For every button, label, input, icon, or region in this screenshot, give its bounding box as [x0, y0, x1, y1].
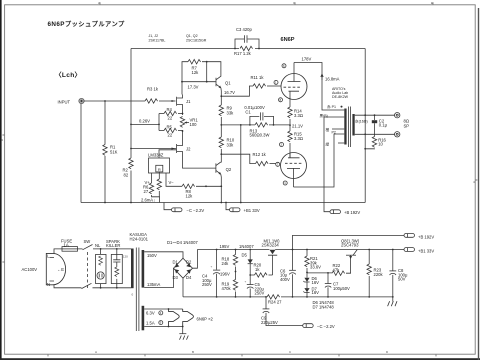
heater filament 2 of 6N6P: [183, 309, 194, 327]
svg-text:100μ50V: 100μ50V: [333, 286, 350, 291]
svg-text:D1〜D4 1N4007: D1〜D4 1N4007: [167, 240, 198, 245]
diode D1: [175, 263, 179, 267]
svg-text:27: 27: [144, 189, 149, 194]
wire to Q1 base: [182, 81, 216, 83]
wire R7 to Q1 collector: [202, 62, 221, 77]
HV wires to bridge: [144, 252, 183, 288]
PT core: [136, 248, 139, 332]
svg-text:KILLER: KILLER: [106, 243, 120, 248]
wire J2 drain to Q2 base: [183, 155, 216, 168]
NFB column wire: [130, 49, 132, 203]
wire R4/R5 left link: [158, 114, 160, 131]
speaker terminal -: [395, 132, 400, 137]
wire takeoff to R12: [221, 154, 255, 163]
nodes on source rail: [182, 113, 184, 115]
svg-text:C1: C1: [245, 110, 251, 115]
tag +B1 33V: [404, 248, 415, 252]
tag +B 192V mid: [330, 210, 341, 214]
node R1 bottom: [104, 202, 106, 204]
svg-text:250V: 250V: [202, 282, 212, 287]
node R7 right: [206, 61, 208, 63]
svg-text:2SK3234: 2SK3234: [262, 243, 280, 248]
tube V2 lower triode 6N6P: [281, 153, 307, 179]
svg-text:D7 1N4748: D7 1N4748: [313, 304, 335, 309]
AC plug: [46, 253, 65, 284]
svg-text:R3 1k: R3 1k: [147, 87, 159, 92]
svg-text:12k: 12k: [186, 193, 194, 198]
node lower grid takeoff: [220, 153, 222, 155]
svg-text:R11 1k: R11 1k: [251, 75, 265, 80]
svg-text:D2: D2: [186, 260, 192, 265]
svg-text:2SC1815GR: 2SC1815GR: [186, 38, 207, 42]
svg-text:10: 10: [378, 142, 383, 147]
cathode node wire 21.1V: [221, 124, 290, 126]
wire 0.26V to NFB column: [131, 123, 159, 125]
PT heater secondary: [142, 306, 145, 331]
OPT secondary bottom wire: [355, 133, 395, 135]
capacitor C7 100u 50V: [327, 273, 329, 283]
svg-text:0.26V: 0.26V: [139, 119, 150, 124]
frame tick marks bottom: [48, 354, 436, 356]
svg-text:1.5A: 1.5A: [146, 320, 155, 325]
frame tick left/right: [2, 135, 477, 262]
svg-text:16.8mA: 16.8mA: [325, 77, 340, 82]
ground rail of amp: [81, 202, 365, 204]
wire LM334 top to J2 source: [159, 150, 176, 158]
wire Q2 emitter to rail: [220, 174, 223, 202]
svg-text:V−: V−: [169, 180, 175, 185]
svg-text:D3: D3: [173, 275, 179, 280]
zener D7 16V: [304, 288, 309, 292]
resistor R1 51K: [103, 145, 107, 156]
resistor R19 470k: [233, 280, 237, 291]
wire R13 bias column to rail: [240, 125, 242, 203]
svg-text:195V: 195V: [220, 244, 230, 249]
svg-text:16V: 16V: [312, 290, 320, 295]
wire Q1 emitter down: [220, 88, 222, 105]
svg-text:−C −2.2V: −C −2.2V: [317, 324, 335, 329]
svg-text:緑: 緑: [326, 142, 330, 147]
svg-text:Q2: Q2: [226, 167, 232, 172]
node heater 1 top: [168, 308, 170, 310]
resistor R12 1k: [256, 161, 269, 165]
svg-text:33k: 33k: [227, 142, 235, 147]
svg-text:250V: 250V: [255, 291, 265, 296]
JFET J2: [176, 144, 178, 153]
page edge shading left: [0, 0, 2, 360]
svg-text:16V: 16V: [312, 280, 320, 285]
bridge rectifier diamond: [174, 258, 193, 278]
svg-text:赤 P1: 赤 P1: [327, 104, 336, 109]
OPT orange stub: [332, 128, 344, 130]
svg-text:P2: P2: [332, 130, 336, 134]
svg-text:AC100V: AC100V: [22, 267, 38, 272]
svg-text:2SC4793: 2SC4793: [341, 243, 359, 248]
current label 16.8mA: [321, 74, 323, 80]
tag -C -2.2V psu: [303, 324, 314, 328]
pin 1 upper tube: [274, 80, 278, 84]
resistor R8 12k: [182, 184, 195, 188]
svg-text:R17 1.2k: R17 1.2k: [234, 51, 252, 56]
psu ground rail: [183, 296, 393, 298]
wire input sleeve down: [80, 104, 82, 203]
tube V1 upper triode 6N6P: [281, 74, 307, 100]
svg-text:+B1 33V: +B1 33V: [418, 248, 434, 253]
tag -C -2.2V: [164, 203, 172, 210]
svg-text:196V: 196V: [220, 271, 230, 276]
ground symbol psu: [392, 297, 394, 302]
svg-text:+B 192V: +B 192V: [418, 234, 434, 239]
svg-text:150V: 150V: [147, 253, 157, 258]
wire plug L to fuse: [54, 249, 62, 253]
node cathode line: [220, 124, 222, 126]
capacitor C6 10u 400V: [292, 249, 294, 251]
resistor R11 1k: [253, 84, 266, 88]
svg-text:12k: 12k: [192, 70, 200, 75]
NFB/ground column from output: [364, 49, 366, 203]
node J1 drain / Q1 base wire: [181, 81, 183, 83]
NFB top rail: [131, 48, 365, 50]
svg-text:B: B: [192, 350, 194, 354]
svg-text:21.1V: 21.1V: [292, 123, 303, 128]
B+ rail: [197, 249, 404, 251]
PT HV secondary: [142, 250, 145, 288]
svg-text:16.7V: 16.7V: [224, 90, 235, 95]
heater filament 1 of 6N6P: [169, 309, 180, 327]
resistor R9 33k: [219, 105, 223, 116]
svg-text:R4: R4: [167, 107, 173, 112]
wire plug N to switch: [54, 285, 82, 288]
svg-text:A: A: [98, 1, 100, 5]
frame tick marks top: [100, 2, 433, 5]
switch SW upper pole: [78, 248, 132, 250]
svg-text:H24-0101: H24-0101: [130, 236, 149, 241]
resistor R18 24k: [235, 250, 237, 255]
svg-text:SW: SW: [84, 239, 91, 244]
svg-text:LM334Z: LM334Z: [148, 153, 164, 158]
fuse FUSE 1A: [62, 247, 78, 252]
svg-text:J2: J2: [186, 146, 191, 151]
wire R3 to J1 gate: [159, 100, 176, 102]
tag +B 192V psu: [404, 234, 415, 238]
zobel resistor R16 10: [372, 137, 376, 148]
wire R9 to R10: [220, 117, 222, 137]
svg-text:33.6V: 33.6V: [310, 265, 321, 270]
capacitor C1 0.01u 100V: [250, 112, 274, 125]
LM334 R set lead: [158, 172, 160, 179]
wire J2 gate to NFB node: [131, 148, 176, 150]
svg-text:R: R: [158, 167, 161, 172]
source rail J1-VR1-J2: [182, 108, 184, 142]
svg-text:470k: 470k: [222, 286, 232, 291]
pin 6: [282, 64, 286, 68]
svg-text:135mA: 135mA: [147, 282, 160, 287]
node grid takeoff: [220, 95, 222, 97]
input terminal J: [79, 98, 84, 103]
diode D4: [186, 269, 191, 273]
plate wire to OPT P1: [294, 63, 344, 111]
wire R7 node to Q1 base wire: [206, 62, 208, 82]
svg-text:82: 82: [124, 172, 129, 177]
svg-text:A: A: [95, 350, 97, 354]
svg-text:17.3V: 17.3V: [188, 84, 199, 89]
switch SW lower pole: [82, 283, 132, 288]
wire takeoff to R11: [221, 86, 253, 96]
speaker terminal +: [395, 113, 400, 118]
svg-text:6N6P ×2: 6N6P ×2: [197, 317, 214, 322]
resistor R15 3.3ohm: [288, 131, 292, 142]
transistor Q2: [215, 163, 217, 172]
zobel capacitor C2 0.1u: [374, 115, 376, 120]
svg-text:R24 27: R24 27: [268, 300, 282, 305]
resistor R3 1k: [145, 99, 158, 103]
LM334 V- lead to R8: [166, 173, 182, 186]
page edge shading bottom: [0, 358, 480, 360]
heater center ground: [182, 327, 184, 334]
svg-text:E: E: [431, 1, 433, 5]
node heater 2 bottom: [182, 326, 184, 328]
svg-text:+B 192V: +B 192V: [344, 210, 360, 215]
node 0.26V: [158, 124, 160, 126]
wire R1 column: [104, 101, 106, 203]
resistor R10 33k: [219, 137, 223, 148]
potentiometer VR1 100: [180, 117, 184, 128]
OPT secondary top wire: [355, 114, 395, 116]
svg-text:C3 420p: C3 420p: [236, 27, 253, 32]
resistor R20 1k gate: [255, 273, 268, 277]
svg-text:24k: 24k: [222, 261, 230, 266]
svg-text:120: 120: [123, 255, 128, 259]
wire J1 drain up: [182, 62, 188, 95]
svg-text:1N4007: 1N4007: [239, 244, 254, 249]
svg-text:D5: D5: [242, 253, 248, 258]
wire lower plate to OPT P2: [294, 134, 345, 187]
wire input to R3: [84, 100, 145, 102]
capacitor C3 42p: [235, 35, 259, 48]
OPT green stub: [338, 142, 344, 144]
svg-text:6.3V: 6.3V: [146, 311, 155, 316]
LM334 V+ lead and R6: [151, 173, 153, 183]
node input/R1: [104, 100, 106, 102]
resistor R13 560ohm: [255, 123, 268, 127]
svg-text:47k: 47k: [333, 267, 341, 272]
diode D5 1N4007: [249, 250, 251, 260]
zener D6 16V: [306, 272, 308, 274]
svg-text:DE-8K2W: DE-8K2W: [332, 95, 349, 99]
svg-text:220k: 220k: [374, 272, 384, 277]
svg-text:2.6mA↓: 2.6mA↓: [141, 197, 155, 202]
node R8 line: [220, 185, 222, 187]
resistor R22 47k: [332, 271, 345, 275]
svg-text:400V: 400V: [280, 277, 290, 282]
svg-text:+: +: [245, 280, 247, 284]
pin 2: [280, 143, 284, 147]
svg-text:−C −2.2V: −C −2.2V: [187, 208, 205, 213]
switch link dashed: [87, 252, 89, 288]
svg-text:51K: 51K: [110, 149, 118, 154]
resistor R21 39k: [306, 249, 308, 251]
svg-text:SP: SP: [404, 123, 410, 128]
svg-text:Q1: Q1: [225, 81, 231, 86]
svg-text:3.3Ω: 3.3Ω: [294, 136, 303, 141]
resistor R5 22: [159, 130, 164, 132]
svg-text:2SK117BL: 2SK117BL: [149, 38, 166, 42]
svg-text:R12 1k: R12 1k: [253, 152, 267, 157]
svg-text:D1: D1: [173, 260, 179, 265]
tag +B1 20V: [226, 203, 230, 210]
resistor R14 3.3ohm: [289, 93, 291, 107]
node heater 1 bottom: [168, 326, 170, 328]
bridge - to ground rail: [182, 278, 184, 297]
capacitor C5 220u 250V: [247, 284, 254, 286]
wire R10 to Q2 collector: [220, 149, 222, 163]
svg-text:560Ω0.3W: 560Ω0.3W: [250, 133, 270, 138]
svg-text:+B1 33V: +B1 33V: [244, 208, 260, 213]
resistor R2 82: [129, 158, 133, 169]
resistor R23 220k: [368, 249, 370, 251]
svg-text:1A: 1A: [64, 242, 69, 247]
svg-text:橙: 橙: [326, 127, 330, 132]
capacitor C9 220u 25V: [265, 296, 267, 298]
svg-text:灰(16Ω): 灰(16Ω): [355, 119, 368, 124]
svg-text:INPUT: INPUT: [58, 99, 71, 104]
OPT B wire to +B tag: [324, 117, 344, 212]
svg-text:3.3Ω: 3.3Ω: [294, 113, 303, 118]
pin 7: [276, 162, 280, 166]
page edge shading right: [478, 8, 479, 360]
svg-text:33k: 33k: [227, 110, 235, 115]
svg-text:D4: D4: [186, 275, 192, 280]
bridge + output wire: [193, 250, 198, 269]
svg-text:R5: R5: [167, 124, 173, 129]
svg-text:+: +: [211, 265, 213, 269]
pin 1 lower: [283, 181, 287, 185]
svg-text:22: 22: [168, 132, 173, 137]
wire R11 to grid pin: [267, 85, 281, 87]
svg-text:J1: J1: [186, 99, 191, 104]
svg-text:←E: ←E: [57, 267, 64, 272]
node Q2 emitter rail: [220, 202, 222, 204]
capacitor C4 100u 250V: [216, 250, 218, 297]
resistor R7 12k: [188, 60, 201, 64]
JFET J1: [176, 97, 178, 106]
svg-text:178V: 178V: [302, 57, 312, 62]
capacitor C8 100u 50V: [392, 249, 394, 251]
transistor Q1: [215, 78, 217, 86]
resistor R24 27 in rail: [267, 295, 280, 299]
resistor R17 1.2k on NFB rail: [240, 46, 253, 50]
svg-text:N: N: [47, 282, 50, 287]
svg-text:22: 22: [168, 115, 173, 120]
svg-text:50V: 50V: [398, 277, 406, 282]
PT primary winding: [131, 249, 134, 289]
svg-text:NL: NL: [95, 243, 101, 248]
svg-text:6N6P: 6N6P: [281, 37, 295, 43]
svg-text:100: 100: [190, 122, 198, 127]
heater winding wires: [144, 309, 183, 327]
svg-text:220μ25V: 220μ25V: [261, 320, 278, 325]
resistor R4 22: [159, 113, 164, 115]
diode D3: [175, 269, 179, 273]
svg-text:0.1μ: 0.1μ: [379, 123, 388, 128]
svg-text:〈Lch〉: 〈Lch〉: [55, 71, 81, 79]
+B 192V output line: [293, 235, 405, 249]
svg-text:6N6Pプッシュプルアンプ: 6N6Pプッシュプルアンプ: [48, 19, 125, 28]
zener node wire to Q8 emitter: [307, 272, 351, 274]
pin 8: [279, 98, 283, 102]
diode D2: [186, 263, 190, 267]
